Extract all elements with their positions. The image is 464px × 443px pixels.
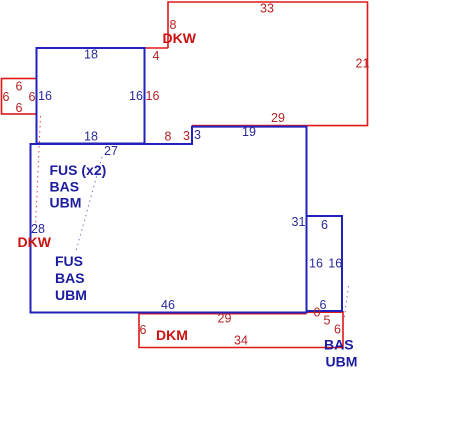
svg-text:16: 16 <box>129 89 143 103</box>
svg-text:31: 31 <box>292 215 306 229</box>
svg-text:6: 6 <box>320 298 327 312</box>
svg-text:6: 6 <box>334 323 341 337</box>
svg-text:6: 6 <box>3 90 10 104</box>
red DKM top edge under building <box>139 312 343 314</box>
svg-text:19: 19 <box>242 125 256 139</box>
svg-text:3: 3 <box>183 129 190 143</box>
red DKM outline bottom <box>139 311 343 348</box>
blue top-left room rect <box>37 48 145 144</box>
blue main building polygon <box>31 127 307 313</box>
svg-text:46: 46 <box>161 298 175 312</box>
svg-text:34: 34 <box>234 334 248 348</box>
svg-text:5: 5 <box>324 314 331 328</box>
svg-text:27: 27 <box>104 144 118 158</box>
svg-text:6: 6 <box>16 80 23 94</box>
svg-text:4: 4 <box>153 49 160 63</box>
svg-text:29: 29 <box>271 111 285 125</box>
svg-text:18: 18 <box>84 130 98 144</box>
svg-text:FUS: FUS <box>55 253 83 269</box>
svg-text:DKW: DKW <box>163 30 197 46</box>
blue small right rect <box>307 216 343 311</box>
svg-text:DKW: DKW <box>18 234 52 250</box>
svg-text:BAS: BAS <box>324 337 354 353</box>
svg-text:6: 6 <box>140 323 147 337</box>
svg-text:0: 0 <box>314 306 321 320</box>
svg-text:6: 6 <box>321 218 328 232</box>
svg-text:16: 16 <box>328 257 342 271</box>
svg-text:BAS: BAS <box>50 179 80 195</box>
svg-text:16: 16 <box>309 257 323 271</box>
svg-text:16: 16 <box>146 89 160 103</box>
svg-text:DKM: DKM <box>156 327 188 343</box>
svg-text:29: 29 <box>218 312 232 326</box>
svg-text:FUS (x2): FUS (x2) <box>50 162 107 178</box>
svg-text:3: 3 <box>194 128 201 142</box>
svg-text:UBM: UBM <box>55 287 87 303</box>
svg-text:8: 8 <box>165 130 172 144</box>
red segment 4 under DKW <box>145 47 169 49</box>
svg-text:UBM: UBM <box>326 354 358 370</box>
svg-text:33: 33 <box>260 2 274 16</box>
red small porch rect left <box>2 79 37 115</box>
svg-text:6: 6 <box>16 101 23 115</box>
red deck DKW outline top <box>168 2 368 126</box>
svg-text:6: 6 <box>29 90 36 104</box>
svg-text:21: 21 <box>356 57 370 71</box>
svg-text:BAS: BAS <box>55 270 85 286</box>
svg-text:18: 18 <box>84 48 98 62</box>
blue dotted leader to FUS label <box>76 157 102 251</box>
blue dotted leader to BAS UBM label <box>344 286 349 320</box>
red dotted leader to DKW label <box>36 116 41 226</box>
svg-text:16: 16 <box>38 89 52 103</box>
svg-text:UBM: UBM <box>50 195 82 211</box>
